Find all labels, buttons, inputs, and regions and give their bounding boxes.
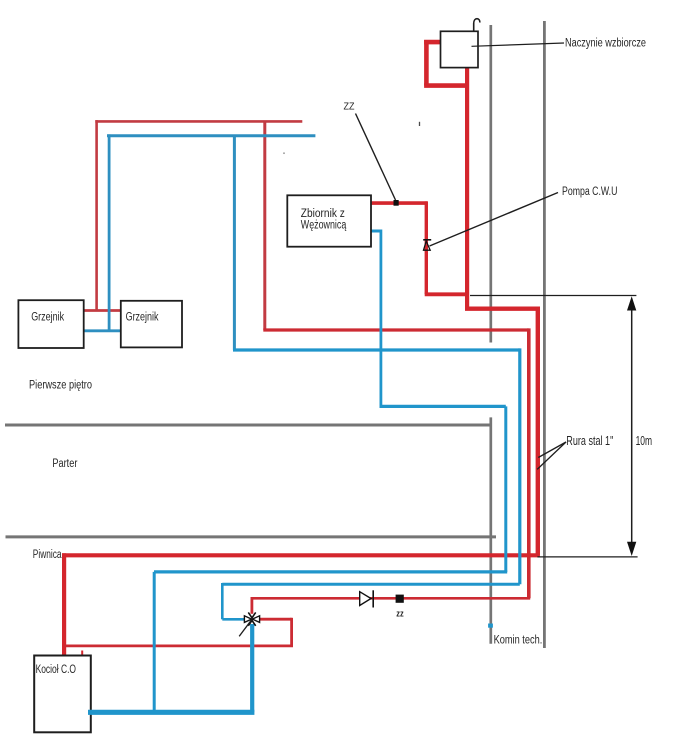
svg-text:Rura stal 1": Rura stal 1" xyxy=(566,433,613,448)
grzejnik 1 box xyxy=(18,300,83,348)
svg-text:Parter: Parter xyxy=(52,458,77,470)
wire: red drop into valve xyxy=(250,597,253,614)
wire: blue vertical drop x520 xyxy=(518,348,521,584)
wire: blue stub from tank xyxy=(371,230,382,233)
red stub on boiler top xyxy=(81,651,83,656)
svg-text:Grzejnik: Grzejnik xyxy=(31,312,64,324)
dimension vertical line xyxy=(631,305,633,547)
wire: red branch down from first floor xyxy=(263,121,266,331)
wire: expansion vessel loop left vertical xyxy=(424,40,429,86)
wire: blue vertical drop x506 xyxy=(504,406,507,572)
wire: red return to boiler horizontal xyxy=(65,645,293,648)
mixing valve bottom chevron xyxy=(248,620,255,625)
zbiornik z wezownica box xyxy=(287,195,371,246)
check valve (diode) triangle xyxy=(360,592,371,606)
wire: blue drop x154 to boiler return xyxy=(153,572,156,712)
small tick artifact xyxy=(419,122,421,126)
chimney line left (lower segment) xyxy=(489,417,492,643)
wire: red horizontal y294 xyxy=(425,292,467,296)
kociol C.O box xyxy=(34,656,91,733)
pump symbol (check valve) bar xyxy=(423,239,431,241)
dimension top tick xyxy=(470,295,636,297)
wire: blue branch down x234 xyxy=(233,135,236,350)
floor line Parter ceiling xyxy=(5,424,491,427)
svg-text:Piwnica: Piwnica xyxy=(33,549,62,561)
leader line from ZZ label xyxy=(356,114,396,201)
svg-text:Naczynie wzbiorcze: Naczynie wzbiorcze xyxy=(565,37,646,49)
leader line to Pompa C.W.U label xyxy=(430,193,559,247)
pump symbol triangle xyxy=(424,241,431,250)
grzejnik 2 box xyxy=(121,301,182,348)
wire: blue horizontal first floor xyxy=(107,134,315,137)
wire: blue thick valve to boiler vertical xyxy=(250,624,254,712)
wire: blue horizontal y406 xyxy=(380,405,506,408)
svg-text:Pompa C.W.U: Pompa C.W.U xyxy=(562,186,617,198)
wire: main red riser from vessel xyxy=(465,66,469,309)
naczynie wzbiorcze box xyxy=(441,31,479,67)
ZZ junction square xyxy=(394,200,399,206)
svg-text:zz: zz xyxy=(396,608,404,618)
wire: blue thick boiler return horizontal xyxy=(88,710,254,715)
wire: red drop to boiler xyxy=(62,553,66,655)
wire: red horizontal y309 xyxy=(465,307,538,311)
svg-text:Kocioł C.O: Kocioł C.O xyxy=(36,664,76,676)
wire: red valve outlet drop xyxy=(290,618,293,646)
vent hook on vessel xyxy=(474,19,480,32)
svg-text:Wężownicą: Wężownicą xyxy=(301,220,347,232)
wire: blue tank return vertical x381 xyxy=(379,230,382,407)
wire: red supply riser to radiators (thin) xyxy=(95,120,98,310)
wire: blue radiator riser xyxy=(108,134,111,331)
wire: red horizontal mid run xyxy=(263,328,529,331)
chimney line left (upper segment) xyxy=(489,25,492,343)
svg-text:Zbiornik z: Zbiornik z xyxy=(301,208,345,220)
dimension arrow up xyxy=(627,296,636,310)
wire: main red basement horizontal xyxy=(62,553,540,557)
small dot artifact xyxy=(283,152,285,154)
wire: blue into valve left xyxy=(222,618,245,621)
wire: red vertical drop x529 xyxy=(527,328,531,598)
dimension bottom tick xyxy=(537,556,637,558)
wire: red horizontal first floor xyxy=(95,120,302,123)
mixing valve top chevron xyxy=(248,612,255,617)
leader lines to Rura stal label xyxy=(538,442,566,458)
svg-text:ZZ: ZZ xyxy=(344,101,355,112)
wire: blue horizontal y350 xyxy=(233,348,520,351)
wire: red pump vertical xyxy=(425,201,428,294)
wire: main red drop x538 xyxy=(536,307,540,556)
wire: blue basement horizontal y572 xyxy=(154,570,507,573)
mixing valve left hollow triangle xyxy=(244,616,251,623)
leader line to Naczynie wzbiorcze label xyxy=(472,43,565,46)
svg-text:10m: 10m xyxy=(636,433,653,448)
svg-text:Pierwsze piętro: Pierwsze piętro xyxy=(29,380,92,392)
mixing valve right hollow triangle xyxy=(252,616,259,623)
wire: red valve outlet right xyxy=(260,618,292,621)
wire: red from tank to ZZ junction xyxy=(371,201,427,205)
floor line Piwnica ceiling xyxy=(6,535,497,538)
wire: red connector between radiators xyxy=(84,309,121,312)
komin blue marker square xyxy=(488,624,493,628)
leader line to valve xyxy=(239,620,251,637)
chimney line right xyxy=(543,21,546,648)
wire: red basement horizontal to valve xyxy=(252,597,530,600)
wire: expansion vessel loop bottom horizontal xyxy=(424,83,468,88)
wire: expansion vessel loop top horizontal xyxy=(424,40,441,45)
wire: blue drop to valve xyxy=(221,583,224,619)
zz junction square 2 xyxy=(396,595,404,603)
dimension arrow down xyxy=(627,542,636,556)
wire: blue basement horizontal y584 xyxy=(222,583,520,586)
wire: blue connector between radiators xyxy=(84,329,121,332)
svg-text:Komin tech.: Komin tech. xyxy=(494,635,543,647)
check valve bar xyxy=(372,590,374,607)
svg-text:Grzejnik: Grzejnik xyxy=(126,312,159,324)
